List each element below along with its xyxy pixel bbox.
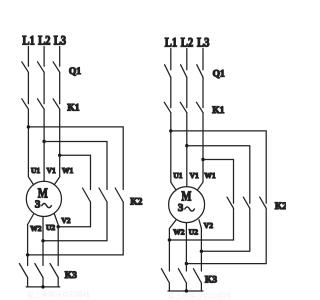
- wire K1 pole 3 down to branch (right): [202, 113, 204, 160]
- junction dot delta connection (right): [185, 262, 188, 265]
- contactor K2 pole 1 blade (left): [83, 188, 91, 202]
- wire V2 exit diagonal (left): [54, 214, 58, 266]
- svg-text:L3: L3: [54, 34, 67, 48]
- contactor K1 pole 2 blade (right): [180, 102, 187, 112]
- wire U1 feed diagonal (right): [171, 131, 176, 190]
- junction dot delta connection (right): [168, 238, 171, 241]
- svg-text:K1: K1: [67, 104, 79, 114]
- contactor K1 pole 3 blade (left): [53, 99, 60, 109]
- svg-text:星三角降压启动接线: 星三角降压启动接线: [168, 291, 231, 300]
- wire V1 feed (left): [43, 142, 45, 182]
- svg-text:V1: V1: [190, 171, 199, 180]
- svg-text:Q1: Q1: [213, 70, 225, 80]
- contactor K3 pole 2 blade (left): [35, 264, 43, 278]
- wire K1 pole 1 down to branch (left): [27, 109, 29, 127]
- svg-text:W2: W2: [173, 228, 185, 237]
- contactor K1 pole 1 blade (left): [22, 99, 29, 109]
- disconnect Q1 pole 3 blade (right): [197, 65, 203, 78]
- wire branch L1 to K2 leg (right): [171, 131, 266, 203]
- wire L1 drop to Q1 (right): [170, 49, 172, 70]
- svg-text:3: 3: [35, 199, 41, 211]
- wire Q1 to K1 pole 2 (right): [186, 77, 188, 107]
- svg-text:星三角降压启动接线: 星三角降压启动接线: [27, 290, 90, 299]
- svg-text:K2: K2: [130, 198, 142, 208]
- contactor K1 pole 2 blade (left): [38, 99, 45, 109]
- wire K2 pole 1 output to motor terminal (left): [58, 202, 90, 227]
- motor M 3-phase (left): [26, 181, 61, 216]
- wire K2 pole 3 output to motor terminal (left): [28, 202, 124, 255]
- disconnect Q1 pole 1 blade (right): [165, 65, 171, 78]
- junction dot on L3 branch (left): [58, 154, 61, 157]
- svg-text:U2: U2: [46, 223, 55, 232]
- wire W1 feed diagonal (right): [197, 160, 203, 191]
- contactor K3 pole 3 blade (right): [193, 269, 201, 283]
- wire K3 pole 1 to star bar (right): [168, 283, 170, 291]
- star point bar (left): [26, 286, 60, 288]
- junction dot delta connection (left): [57, 225, 60, 228]
- wire U1 feed diagonal (left): [28, 127, 33, 184]
- svg-text:L1: L1: [22, 34, 35, 48]
- disconnect Q1 pole 2 blade (right): [181, 65, 187, 78]
- contactor K3 pole 1 blade (left): [19, 264, 27, 278]
- junction dot star point (right): [185, 289, 188, 292]
- disconnect Q1 pole 2 blade (left): [38, 62, 45, 72]
- wire K2 pole 3 output to motor terminal (right): [186, 208, 266, 263]
- wire K1 pole 1 down to branch (right): [170, 113, 172, 131]
- wire branch L2 to K2 leg (right): [187, 146, 250, 204]
- disconnect Q1 pole 3 blade (left): [53, 62, 60, 72]
- contactor K3 pole 2 blade (right): [178, 269, 186, 283]
- junction dot delta connection (left): [41, 239, 44, 242]
- wire K3 pole 3 to star bar (right): [200, 283, 202, 291]
- junction dot on L1 branch (left): [27, 125, 30, 128]
- svg-text:L2: L2: [181, 36, 194, 50]
- wire K3 pole 1 to star bar (left): [27, 278, 29, 287]
- wire L2 drop to Q1 (left): [43, 47, 45, 67]
- svg-text:K3: K3: [205, 276, 217, 286]
- svg-text:K1: K1: [212, 106, 224, 116]
- wire W1 feed diagonal (left): [55, 155, 60, 184]
- wire V1 feed (right): [186, 146, 188, 187]
- wire V2 exit diagonal (right): [199, 220, 201, 271]
- wire K1 pole 2 down to branch (right): [186, 113, 188, 146]
- svg-text:K2: K2: [275, 202, 286, 212]
- wire branch L3 to K2 leg (right): [203, 160, 234, 204]
- wire Q1 to K1 pole 1 (right): [170, 77, 172, 107]
- contactor K3 pole 3 blade (left): [50, 264, 58, 278]
- wire K3 pole 3 to star bar (left): [57, 278, 59, 287]
- wire Q1 to K1 pole 3 (right): [202, 77, 204, 107]
- wire K2 pole 2 output to motor terminal (right): [201, 208, 249, 251]
- svg-text:V2: V2: [204, 221, 213, 230]
- tilde of 3~ (left): [42, 204, 52, 208]
- svg-text:V1: V1: [47, 166, 56, 175]
- tilde of 3~ (right): [185, 207, 195, 211]
- contactor K2 pole 3 blade (right): [260, 197, 267, 208]
- wire branch L2 to K2 leg (left): [44, 142, 107, 190]
- wire K1 pole 2 down to branch (left): [43, 109, 45, 141]
- junction dot on L1 branch (right): [169, 129, 172, 132]
- svg-text:L2: L2: [38, 34, 51, 48]
- wire branch L3 to K2 leg (left): [60, 155, 91, 189]
- contactor K3 pole 1 blade (right): [161, 269, 169, 283]
- contactor K1 pole 1 blade (right): [164, 102, 171, 112]
- contactor K2 pole 2 blade (right): [243, 197, 250, 208]
- contactor K2 pole 2 blade (left): [99, 188, 107, 202]
- contactor K1 pole 3 blade (right): [196, 102, 203, 112]
- wire K3 pole 2 to star bar (left): [42, 278, 44, 287]
- wire W2 exit diagonal (left): [28, 214, 34, 266]
- svg-text:3: 3: [178, 202, 184, 214]
- svg-text:K3: K3: [65, 271, 77, 281]
- junction dot delta connection (left): [26, 253, 29, 256]
- star point bar (right): [168, 290, 203, 292]
- wire U2 exit (left): [42, 217, 44, 266]
- svg-text:W2: W2: [30, 224, 42, 233]
- wire L3 drop to Q1 (right): [202, 49, 204, 70]
- wire U2 exit (right): [185, 223, 187, 271]
- motor M 3-phase (right): [169, 187, 205, 223]
- wire W2 exit diagonal (right): [169, 220, 176, 271]
- wire K1 pole 3 down to branch (left): [59, 109, 61, 155]
- disconnect Q1 pole 1 blade (left): [22, 62, 29, 72]
- svg-text:Q1: Q1: [69, 67, 81, 77]
- svg-text:U2: U2: [189, 228, 198, 237]
- wire Q1 to K1 pole 1 (left): [27, 72, 29, 104]
- svg-text:U1: U1: [173, 171, 182, 180]
- junction dot on L2 branch (left): [42, 140, 45, 143]
- junction dot on L3 branch (right): [201, 158, 204, 161]
- svg-text:V2: V2: [61, 216, 70, 225]
- wire K2 pole 1 output to motor terminal (right): [169, 208, 233, 240]
- contactor K2 pole 1 blade (right): [227, 197, 234, 208]
- wire branch L1 to K2 leg (left): [28, 127, 123, 190]
- wire K2 pole 2 output to motor terminal (left): [43, 202, 107, 241]
- wire L1 drop to Q1 (left): [27, 47, 29, 67]
- wire Q1 to K1 pole 3 (left): [59, 72, 61, 104]
- junction dot delta connection (right): [200, 250, 203, 253]
- svg-text:W1: W1: [62, 166, 74, 175]
- wire Q1 to K1 pole 2 (left): [43, 72, 45, 104]
- svg-text:W1: W1: [204, 171, 216, 180]
- svg-text:L3: L3: [197, 36, 210, 50]
- contactor K2 pole 3 blade (left): [115, 188, 123, 202]
- wire L3 drop to Q1 (left): [59, 47, 61, 67]
- junction dot on L2 branch (right): [185, 144, 188, 147]
- junction dot star point (left): [41, 285, 44, 288]
- svg-text:L1: L1: [165, 36, 178, 50]
- svg-text:U1: U1: [31, 166, 40, 175]
- wire K3 pole 2 to star bar (right): [185, 283, 187, 291]
- wire L2 drop to Q1 (right): [186, 49, 188, 70]
